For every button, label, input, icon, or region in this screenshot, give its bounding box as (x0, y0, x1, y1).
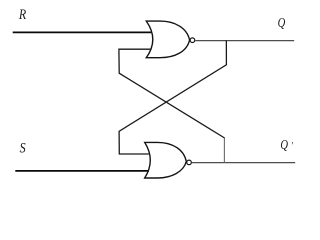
svg-text:Q: Q (278, 15, 286, 30)
wire R input (13, 31, 152, 33)
NOR gate U1 body (146, 21, 189, 58)
NOR gate U2 body (145, 142, 187, 178)
wire Q output (195, 40, 294, 42)
svg-text:Q′: Q′ (280, 137, 293, 152)
wire S input (15, 170, 149, 172)
NOR gate U1 output bubble (190, 38, 195, 43)
svg-text:S: S (20, 139, 26, 156)
wire feedback from Q down (119, 41, 226, 155)
wire Q' output (192, 162, 295, 164)
svg-text:R: R (18, 6, 27, 23)
NOR gate U2 output bubble (187, 160, 192, 165)
wire feedback from Q' up (119, 49, 225, 162)
